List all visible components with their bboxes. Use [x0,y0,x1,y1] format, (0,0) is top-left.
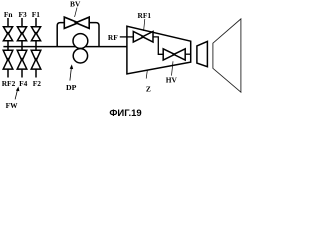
svg-text:ФИГ.19: ФИГ.19 [109,108,141,119]
valve Fn [3,27,12,41]
arrow DP [70,68,72,81]
svg-text:FW: FW [6,101,19,110]
valve RF1 [133,32,153,43]
svg-text:Fn: Fn [4,10,13,19]
valve HV [163,49,185,60]
valve F4 [17,50,27,69]
leader Z [146,70,147,78]
svg-text:RF2: RF2 [2,79,16,88]
turbine body Z [127,26,191,74]
nozzle cone [197,41,208,66]
wire FW stub col3 [35,69,37,77]
wire main-to-valve col3 [35,47,37,51]
wire FW stub col2 [21,69,23,77]
svg-text:F4: F4 [19,79,28,88]
wire FW stub col1 [7,69,9,77]
wire valve-to-main col2 [21,41,23,47]
valve BV [64,17,89,28]
wire valve-to-main col3 [35,41,37,47]
wire F3 stub [21,18,23,27]
wire F1 stub [35,18,37,27]
valve RF2 [3,50,13,69]
wire bypass loop [57,23,99,47]
valve F3 [17,27,26,41]
condenser horn [213,19,241,92]
svg-text:HV: HV [166,76,178,85]
wire main-to-valve col2 [21,47,23,51]
svg-text:RF: RF [108,33,118,42]
leader HV [172,61,174,75]
wire Fn stub [7,18,9,27]
valve F1 [31,27,40,41]
wire RF1-to-HV [153,37,163,54]
valve F2 [31,50,41,69]
svg-text:F2: F2 [33,79,42,88]
leader BV [75,8,77,17]
svg-text:Z: Z [146,84,151,93]
svg-text:DP: DP [66,83,77,92]
wire main-to-valve col1 [7,47,9,51]
wire main steam pipe [3,46,127,48]
svg-text:F3: F3 [18,10,27,19]
pump DP top circle [73,34,88,49]
svg-text:BV: BV [70,0,81,9]
wire RF spray line [120,36,134,38]
arrow FW [15,90,17,100]
pump DP bottom circle [73,49,87,63]
leader RF1 [144,19,145,31]
wire HV exit [185,53,191,55]
svg-text:RF1: RF1 [138,11,152,20]
wire valve-to-main col1 [7,41,9,47]
svg-text:F1: F1 [32,10,41,19]
